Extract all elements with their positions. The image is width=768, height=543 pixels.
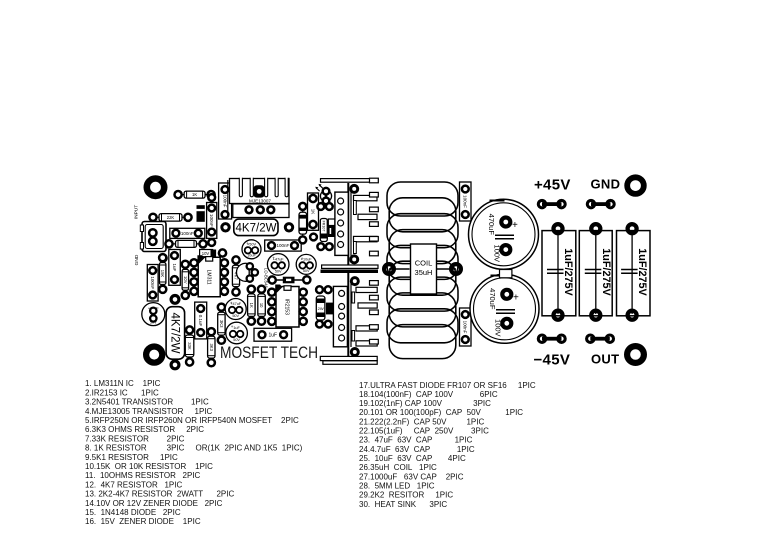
svg-text:19.102(1nF) CAP 100V: 19.102(1nF) CAP 100V 3PIC [359,399,491,408]
capacitor 100nF [460,182,472,221]
svg-text:3.2N5401 TRANSISTOR 1PI: 3.2N5401 TRANSISTOR 1PIC [85,398,209,407]
heat sink fingers bottom [352,287,377,346]
svg-text:100nF: 100nF [277,243,290,248]
svg-text:26.35uH COIL 1PIC: 26.35uH COIL 1PIC [359,463,437,472]
MOSFET Q2 IRFP250N [333,286,347,346]
label OUT [591,352,619,367]
capacitor 1K box [308,193,319,230]
capacitor 1uF [254,328,292,341]
svg-text:15K: 15K [160,270,165,278]
svg-text:1uF/275V: 1uF/275V [636,248,648,296]
wire coil left [389,268,410,270]
pad mounting [351,256,358,263]
transistor MJE13007 body [233,204,289,218]
pad [159,254,166,261]
svg-text:50V: 50V [232,314,239,318]
svg-text:1. LM311N IC 1PIC: 1. LM311N IC 1PIC [85,379,161,388]
pad [208,239,215,246]
svg-text:INPUT: INPUT [134,205,140,219]
zener diode 1N5 [197,205,205,222]
svg-text:50V: 50V [275,270,282,274]
svg-text:4K7/2W: 4K7/2W [236,223,277,235]
coil L1 35uH windings [387,182,458,359]
pad cap + [501,218,510,227]
pad cap + [502,290,511,299]
pad transistor tab [253,185,264,197]
svg-text:2.IR2153 IC 1PIC: 2.IR2153 IC 1PIC [85,388,159,397]
pad [285,224,292,231]
capacitor 100nF [170,228,205,238]
pad [317,203,324,210]
svg-text:1uF: 1uF [233,326,240,330]
svg-text:29.2K2 RESITOR 1PIC: 29.2K2 RESITOR 1PIC [359,491,453,500]
capacitor 1uF/275V [579,231,612,316]
resistor 4K7/2W vertical [166,307,185,360]
cap clamp bracket [500,270,512,278]
svg-text:100nF: 100nF [209,214,214,227]
svg-text:MOSFET TECH: MOSFET TECH [220,344,318,362]
svg-text:1K: 1K [192,192,197,197]
heat sink MJE13007 [228,177,289,217]
svg-text:+10uF: +10uF [301,258,313,262]
electrolytic 10uF [142,303,165,326]
svg-text:5.IRFP250N OR IRFP260N OR IRFP: 5.IRFP250N OR IRFP260N OR IRFP540N MOSFE… [85,416,299,425]
electrolytic 47uF [267,254,289,276]
pad [325,286,332,293]
svg-text:4K7/2W: 4K7/2W [168,313,180,354]
pad [222,224,229,231]
svg-text:IR2153: IR2153 [284,299,290,315]
pad [171,296,179,304]
svg-text:100nF: 100nF [150,276,155,289]
svg-text:+45V: +45V [534,177,571,194]
pad [591,311,600,320]
heat sink mid bars [321,265,379,273]
electrolytic 10uF [242,240,261,259]
svg-text:10.15K OR 10K RESISTOR 1PI: 10.15K OR 10K RESISTOR 1PIC [85,462,213,471]
pad [310,234,317,241]
svg-text:1uF: 1uF [172,264,177,272]
terminal +45V pads [542,202,562,206]
svg-text:18.104(100nF) CAP 100V: 18.104(100nF) CAP 100V 6PIC [359,390,498,399]
svg-text:100nF: 100nF [181,231,194,236]
pad mounting [351,278,358,285]
svg-text:12. 4K7 RESISTOR 1PIC: 12. 4K7 RESISTOR 1PIC [85,480,182,489]
svg-text:+47uF: +47uF [230,302,242,306]
resistor 22K [153,214,188,222]
svg-text:1K: 1K [249,303,254,308]
svg-text:100nF: 100nF [463,195,468,208]
label INPUT [134,205,140,219]
heat sink fingers top [354,195,378,253]
capacitor 100nF [460,308,472,346]
svg-text:100nF: 100nF [463,321,468,334]
zener diode 10V [182,264,189,295]
wire drain rail bottom [348,273,351,356]
transistor Q7 [326,303,334,315]
svg-text:100nF: 100nF [223,195,228,208]
transistor Q4 BC546 [236,263,249,281]
heat sink bottom bars [320,356,377,364]
svg-text:+50V: +50V [247,243,256,247]
pad [554,311,563,320]
svg-text:35uH: 35uH [415,268,433,277]
svg-text:2W: 2W [318,306,324,311]
pad [628,224,637,233]
svg-text:0.1uF: 0.1uF [198,315,203,327]
pad [591,224,600,233]
diode FR107 [320,219,327,242]
label GND [134,254,140,265]
resistor 1K [248,289,256,321]
svg-text:3K3: 3K3 [219,320,224,328]
input connector J1 [140,222,166,252]
resistor 3K3 [208,332,215,363]
svg-text:6.3K3 OHMS RESISTOR 2PIC: 6.3K3 OHMS RESISTOR 2PIC [85,425,204,434]
electrolytic 47uF [225,299,246,320]
pad [325,321,332,328]
svg-text:10V: 10V [183,276,188,284]
svg-text:+: + [513,292,519,303]
LED D5 [315,184,331,202]
resistor 3K3 [218,307,225,340]
parts list right column [359,381,536,509]
svg-text:1uF: 1uF [268,333,277,339]
diode D2 [192,260,198,265]
label +45V [534,177,571,194]
MOSFET Q1 IRFP250N [335,192,348,255]
electrolytic 470uF 100V [469,199,539,269]
resistor 10 ohm [258,289,266,321]
capacitor small [328,219,335,226]
svg-text:15. 1N4148 DIODE 2PIC: 15. 1N4148 DIODE 2PIC [85,508,181,517]
capacitor 0.1uF [195,302,207,339]
resistor 2K2 [299,206,307,240]
svg-text:+: + [512,220,518,231]
svg-text:1uF/275V: 1uF/275V [600,248,612,296]
svg-text:MJE13007: MJE13007 [249,198,271,203]
transistor Q6 [328,226,335,238]
electrolytic 1uF [226,322,248,344]
svg-text:−45V: −45V [534,351,571,368]
svg-text:24.4.7uF 63V CAP: 24.4.7uF 63V CAP 1PIC [359,445,475,454]
svg-text:20.101 OR 100(100pF) CAP 50V: 20.101 OR 100(100pF) CAP 50V 1PIC [359,408,523,417]
pad mounting [351,349,358,356]
heat sink top bar [321,179,379,183]
capacitor 1uF/275V [542,231,576,316]
resistor 4K7/2W horizontal [234,219,278,236]
terminal OUT pads [590,337,610,341]
pin 2 [257,206,264,213]
svg-text:OUT: OUT [591,352,619,367]
svg-text:28. 5MM LED 1PIC: 28. 5MM LED 1PIC [359,482,435,491]
IC U2 IR2153 [275,285,299,328]
parts list left column [85,379,303,526]
capacitor 100nF [265,240,302,251]
svg-text:1uF/275V: 1uF/275V [562,248,574,296]
svg-text:17.ULTRA FAST DIODE FR107 OR S: 17.ULTRA FAST DIODE FR107 OR SF16 1PIC [359,381,536,390]
svg-text:22K: 22K [167,215,175,220]
svg-text:21.222(2.2nF) CAP 50V: 21.222(2.2nF) CAP 50V 1PIC [359,417,484,426]
svg-text:50V: 50V [233,338,240,342]
mounting hole top-right [627,177,644,194]
pad [317,243,324,250]
svg-text:10V: 10V [202,251,210,256]
pad cap - [502,319,511,328]
svg-text:27.1000uF 63V CAP 2PIC: 27.1000uF 63V CAP 2PIC [359,472,464,481]
pad mounting [351,185,358,192]
svg-text:13. 2K2-4K7 RESISTOR 2WATT: 13. 2K2-4K7 RESISTOR 2WATT 2PIC [85,490,234,499]
svg-text:7.33K RESISTOR 2PIC: 7.33K RESISTOR 2PIC [85,434,185,443]
wire drain rail top [348,183,351,265]
svg-text:COIL: COIL [415,259,433,268]
pad coil right [451,264,461,274]
resistor bead [272,277,307,284]
resistor [169,240,203,247]
svg-text:3K3: 3K3 [209,343,214,351]
svg-text:30. HEAT SINK 3PIC: 30. HEAT SINK 3PIC [359,500,447,509]
resistor 2K2 2W [316,296,325,320]
mounting hole bottom-left [146,347,162,363]
mounting hole bottom-right [627,346,644,363]
capacitor 100nF [207,203,217,239]
pad cap - [501,245,510,254]
svg-text:25. 10uF 63V CAP 4PIC: 25. 10uF 63V CAP 4PIC [359,454,466,463]
label GND [591,177,621,192]
terminal -45V pads [542,337,562,341]
pad [171,361,179,369]
svg-text:+47uF: +47uF [273,257,285,261]
pad [316,321,323,328]
svg-text:23. 47uF 63V CAP 1: 23. 47uF 63V CAP 1PIC [359,436,473,445]
svg-text:4.MJE13005 TRANSISTOR 1PIC: 4.MJE13005 TRANSISTOR 1PIC [85,407,213,416]
label -45V [534,351,571,368]
electrolytic 470uF 100V [470,274,539,343]
svg-text:FR107: FR107 [322,221,326,232]
resistor 4K7 [232,260,239,292]
svg-text:LM311: LM311 [205,270,211,285]
resistor 1K [178,191,211,198]
pad [326,203,333,210]
svg-text:11. 10OHMS RESISTOR 2PIC: 11. 10OHMS RESISTOR 2PIC [85,471,201,480]
pad [326,243,333,250]
svg-text:10: 10 [259,303,264,308]
capacitor 1uF [169,250,181,286]
electrolytic 10uF [296,254,316,274]
op-amp U1 LM311 [197,255,220,296]
pad [219,249,226,256]
svg-text:9.5K1 RESISTOR 1PIC: 9.5K1 RESISTOR 1PIC [85,453,178,462]
svg-text:14.10V OR 12V ZENER DIODE 2P: 14.10V OR 12V ZENER DIODE 2PIC [85,499,223,508]
svg-text:470uF: 470uF [487,214,496,236]
terminal GND pads [591,202,611,206]
zener diode 10V [200,250,217,257]
svg-text:16. 15V ZENER DIODE 1PIC: 16. 15V ZENER DIODE 1PIC [85,517,201,526]
mounting hole top-left [147,179,164,196]
svg-text:50V: 50V [303,269,310,273]
pad coil left [384,264,394,274]
svg-text:8. 1K RESISTOR 3PIC: 8. 1K RESISTOR 3PIC OR(1K 2PIC AND 1K5 1… [85,444,303,453]
svg-text:470uF: 470uF [488,288,497,310]
capacitor 1uF/275V [617,231,651,316]
coil L1 label box [411,244,437,294]
capacitor 100nF [147,265,158,302]
svg-text:1K: 1K [310,209,315,215]
resistor 15K [159,258,166,290]
resistor 33K [185,330,194,362]
pad [628,311,637,320]
svg-text:33K: 33K [187,342,192,350]
wire coil right [437,268,457,270]
pin 1 [246,206,253,213]
heat sink tab stubs column [370,178,379,344]
label BC546 [264,268,269,288]
pad [316,286,323,293]
pin 3 [267,206,274,213]
svg-text:GND: GND [134,254,140,265]
pad [554,224,563,233]
label MOSFET TECH [220,344,318,362]
svg-text:GND: GND [591,177,621,192]
svg-text:22.105(1uF) CAP 250V: 22.105(1uF) CAP 250V 3PIC [359,427,489,436]
capacitor 100nF [219,183,232,219]
